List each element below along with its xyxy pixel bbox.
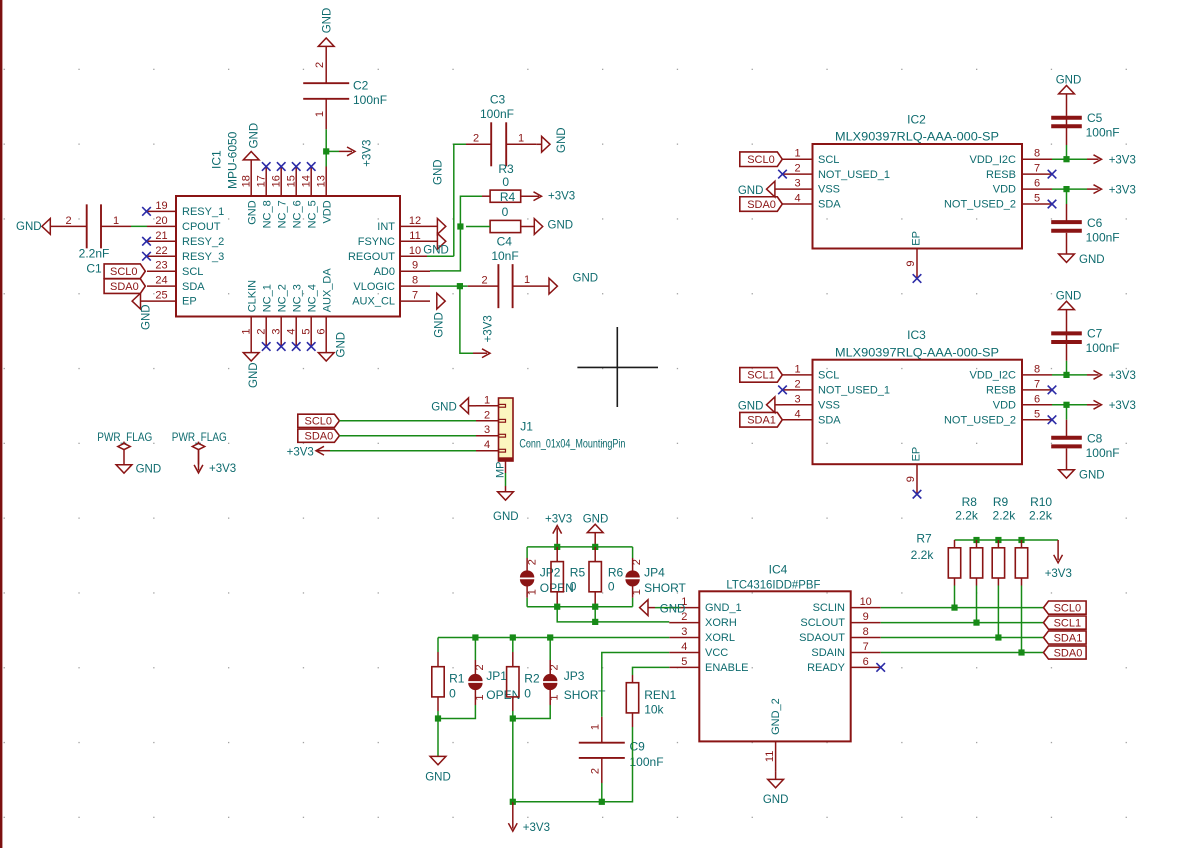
svg-text:SDA1: SDA1 (747, 415, 776, 427)
svg-text:SDA: SDA (182, 281, 205, 293)
IC1 pin 15 NC_6 (285, 167, 303, 229)
IC1 pin 12 INT (377, 215, 430, 233)
svg-text:2.2k: 2.2k (1029, 508, 1053, 522)
J1 mounting pin MP (495, 461, 507, 492)
svg-text:3: 3 (794, 393, 800, 405)
svg-text:VDD: VDD (993, 399, 1016, 411)
svg-text:SCL: SCL (818, 370, 839, 382)
junction JP1 top (472, 634, 478, 640)
svg-text:100nF: 100nF (1086, 341, 1120, 355)
IC1 pin 21 RESY_2 (147, 230, 224, 248)
resistor REN1 10k (626, 675, 676, 727)
svg-text:2: 2 (481, 274, 487, 286)
ground symbol below C6 (1059, 254, 1105, 266)
power +3V3 at IC3 VDD_I2C (1087, 370, 1136, 382)
power +3V3 below VLOGIC (473, 315, 494, 357)
IC1 value MPU-6050 (225, 131, 239, 189)
svg-text:3: 3 (270, 328, 282, 334)
ground symbol at IC1 pin 11 FSYNC (423, 233, 449, 256)
no-connect IC3 pin 7 (1048, 386, 1057, 395)
IC1 pin 16 NC_7 (270, 167, 288, 229)
svg-text:GND_1: GND_1 (705, 602, 742, 614)
svg-text:GND: GND (425, 771, 451, 783)
svg-text:+3V3: +3V3 (545, 513, 572, 525)
svg-text:Conn_01x04_MountingPin: Conn_01x04_MountingPin (519, 437, 625, 451)
svg-text:R10: R10 (1030, 495, 1052, 509)
svg-text:4: 4 (681, 641, 687, 653)
capacitor C3 100nF (466, 93, 536, 167)
IC1 pin 5 NC_4 (300, 284, 318, 346)
svg-text:15: 15 (285, 175, 297, 187)
svg-text:SCL1: SCL1 (1054, 617, 1082, 629)
svg-text:7: 7 (863, 641, 869, 653)
IC3 pin 5 NOT_USED_2 (944, 408, 1052, 426)
svg-text:GND: GND (248, 123, 260, 149)
jumper JP3 SHORT (513, 638, 606, 719)
svg-text:R2: R2 (524, 672, 540, 686)
IC4 pin 11 GND_2 (764, 698, 782, 771)
svg-text:SCL0: SCL0 (305, 416, 333, 428)
junction at R4 / +3V3 column (457, 223, 463, 229)
svg-text:SDA1: SDA1 (1054, 632, 1083, 644)
no-connect pin 15 (292, 162, 301, 171)
IC1 pin 22 RESY_3 (147, 245, 224, 263)
no-connect IC2 pin 7 (1048, 170, 1057, 179)
svg-text:+3V3: +3V3 (1109, 184, 1136, 196)
no-connect IC3 pin 2 (778, 386, 787, 395)
svg-text:GND: GND (432, 159, 444, 185)
svg-text:SCL0: SCL0 (1054, 602, 1082, 614)
ground symbol at PWR_FLAG (136, 463, 162, 475)
wire jumper-block top rail (527, 546, 633, 548)
svg-text:IC3: IC3 (907, 328, 926, 342)
svg-text:1: 1 (474, 694, 486, 700)
IC2 pin 4 SDA (783, 193, 842, 211)
svg-text:2: 2 (794, 378, 800, 390)
svg-text:R5: R5 (570, 565, 586, 579)
svg-text:19: 19 (155, 200, 167, 212)
no-connect pin 17 (262, 162, 271, 171)
svg-text:100nF: 100nF (480, 107, 514, 121)
IC1 pin 3 NC_2 (270, 284, 288, 346)
ground symbol at IC1 pin 18 (243, 123, 260, 167)
IC1 pin 19 RESY_1 (147, 200, 224, 218)
wire IC2 VDD to +3V3 (1052, 188, 1087, 190)
J1 reference J1 (520, 420, 533, 434)
svg-text:REN1: REN1 (644, 688, 676, 702)
wire IC2 VDD_I2C to +3V3 (1052, 158, 1087, 160)
no-connect pin 2 (262, 342, 271, 351)
wire +3V3 column to R3 (430, 196, 482, 271)
svg-text:SDAOUT: SDAOUT (799, 632, 845, 644)
IC4 reference IC4 (769, 563, 788, 577)
capacitor C4 10nF (468, 235, 550, 309)
hierarchical label SDA1 at IC3 pin 4 (740, 412, 783, 427)
J1 value Conn_01x04_MountingPin (519, 437, 625, 451)
IC3 pin 9 EP (905, 447, 922, 494)
wire J1 pin 4 (330, 450, 476, 452)
svg-text:IC4: IC4 (769, 563, 788, 577)
svg-text:22: 22 (155, 245, 167, 257)
svg-text:+3V3: +3V3 (1109, 370, 1136, 382)
IC3 pin 4 SDA (783, 408, 842, 426)
junction VDD/C6 (1063, 186, 1069, 192)
svg-text:REGOUT: REGOUT (348, 251, 395, 263)
wire IC4 to SCL1 (881, 622, 1044, 624)
wire IC3 VDD to +3V3 (1052, 404, 1087, 406)
svg-text:4: 4 (285, 328, 297, 334)
IC1 pin 4 NC_3 (285, 284, 303, 346)
svg-text:GND: GND (548, 220, 574, 232)
resistor R9 2.2k (992, 495, 1016, 638)
IC4 pin 6 READY (807, 656, 881, 674)
svg-text:3: 3 (484, 424, 490, 436)
svg-text:1: 1 (590, 724, 602, 730)
svg-text:2: 2 (549, 664, 561, 670)
svg-text:SDA0: SDA0 (1054, 647, 1083, 659)
svg-text:GND: GND (1079, 254, 1105, 266)
no-connect pin 14 (307, 162, 316, 171)
svg-text:SDAIN: SDAIN (811, 647, 845, 659)
svg-text:GND_2: GND_2 (770, 698, 782, 735)
svg-text:0: 0 (502, 175, 509, 189)
IC1 pin 9 AD0 (374, 260, 430, 278)
wire VLOGIC to C4 (430, 285, 468, 287)
junction VDD/C8 (1063, 402, 1069, 408)
svg-text:GND: GND (136, 463, 162, 475)
svg-text:20: 20 (155, 215, 167, 227)
ground symbol at J1 MP (493, 492, 519, 523)
svg-text:SCL0: SCL0 (747, 154, 775, 166)
IC2 pin 1 SCL (783, 148, 840, 166)
svg-text:8: 8 (412, 275, 418, 287)
IC1 pin 20 CPOUT (147, 215, 221, 233)
ground symbol at R4 (534, 219, 573, 235)
junction R8 top (973, 537, 979, 543)
hierarchical label SDA0 at IC1 pin 24 (104, 279, 145, 294)
svg-text:8: 8 (863, 626, 869, 638)
svg-text:SCLOUT: SCLOUT (800, 617, 845, 629)
svg-text:SCL: SCL (818, 154, 839, 166)
svg-text:12: 12 (409, 215, 421, 227)
svg-text:PWR_FLAG: PWR_FLAG (172, 430, 227, 444)
svg-text:GND: GND (322, 8, 334, 34)
svg-text:100nF: 100nF (353, 93, 387, 107)
svg-text:GND: GND (1079, 470, 1105, 482)
svg-text:GND: GND (1056, 75, 1082, 87)
svg-text:NC_7: NC_7 (276, 200, 288, 228)
svg-text:GND: GND (738, 185, 764, 197)
svg-text:1: 1 (240, 328, 252, 334)
svg-text:XORH: XORH (705, 617, 737, 629)
svg-text:2: 2 (794, 163, 800, 175)
svg-text:SCLIN: SCLIN (813, 602, 845, 614)
svg-text:RESB: RESB (986, 384, 1016, 396)
ground symbol above C5 (1056, 75, 1082, 94)
wire IC4 to SDA1 (881, 637, 1044, 639)
svg-text:NC_6: NC_6 (291, 200, 303, 228)
no-connect IC2 pin 2 (778, 170, 787, 179)
svg-text:+3V3: +3V3 (1109, 400, 1136, 412)
svg-text:1: 1 (794, 363, 800, 375)
junction R2 top (510, 634, 516, 640)
resistor R8 2.2k (955, 495, 982, 623)
svg-text:5: 5 (1034, 408, 1040, 420)
svg-text:2.2k: 2.2k (955, 508, 979, 522)
IC4 pin 10 SCLIN (813, 596, 881, 614)
svg-text:1: 1 (484, 394, 490, 406)
svg-text:IC1: IC1 (209, 150, 223, 169)
svg-text:R9: R9 (993, 495, 1009, 509)
IC2 reference (907, 113, 926, 127)
svg-text:SDA: SDA (818, 414, 841, 426)
svg-text:8: 8 (1034, 363, 1040, 375)
IC1 pin 24 SDA (147, 275, 205, 293)
svg-text:3: 3 (794, 178, 800, 190)
svg-text:C2: C2 (353, 79, 369, 93)
IC3 pin 8 VDD_I2C (970, 363, 1052, 381)
ground symbol below C8 (1059, 470, 1105, 482)
svg-text:AUX_DA: AUX_DA (321, 268, 333, 313)
svg-text:NOT_USED_1: NOT_USED_1 (818, 384, 890, 396)
svg-text:2.2k: 2.2k (911, 548, 935, 562)
svg-text:C3: C3 (490, 93, 506, 107)
svg-text:5: 5 (681, 656, 687, 668)
svg-text:GND: GND (583, 513, 609, 525)
IC1 pin 2 NC_1 (255, 284, 273, 346)
power flag PWR_FLAG (GND) (97, 430, 152, 473)
svg-text:GND: GND (423, 244, 449, 256)
svg-text:NC_1: NC_1 (261, 284, 273, 312)
IC1 pin 14 NC_5 (300, 167, 318, 229)
ground symbol at C4 pin 1 (549, 273, 598, 295)
svg-text:VCC: VCC (705, 647, 728, 659)
wire R2 to +3V3 rail (512, 719, 514, 802)
svg-text:RESY_2: RESY_2 (182, 236, 224, 248)
svg-text:JP3: JP3 (564, 669, 585, 683)
svg-text:2: 2 (590, 768, 602, 774)
svg-text:+3V3: +3V3 (209, 463, 236, 475)
IC2 MLX90397RLQ-AAA-000-SP body (813, 144, 1023, 249)
capacitor C9 100nF (579, 717, 664, 783)
svg-text:2.2nF: 2.2nF (79, 246, 110, 260)
svg-text:0: 0 (449, 687, 456, 701)
ground symbol at IC1 pin 25 EP (132, 293, 152, 330)
IC1 pin 7 AUX_CL (352, 290, 430, 308)
svg-text:SDA: SDA (818, 199, 841, 211)
wire REGOUT to C3 (427, 144, 466, 256)
connector J1 Conn_01x04_MountingPin body (499, 398, 514, 461)
svg-text:100nF: 100nF (630, 755, 664, 769)
svg-text:C8: C8 (1087, 432, 1103, 446)
IC3 pin 3 VSS (783, 393, 841, 411)
hierarchical label SCL1 at IC3 pin 1 (740, 368, 783, 383)
ground symbol at IC1 pin 6 AUX_DA (318, 332, 347, 361)
svg-text:9: 9 (412, 260, 418, 272)
svg-text:EP: EP (910, 447, 922, 462)
svg-text:VDD: VDD (993, 184, 1016, 196)
svg-text:1: 1 (314, 111, 326, 117)
svg-text:XORL: XORL (705, 632, 735, 644)
no-connect pin 22 (142, 252, 151, 261)
IC1 pin 17 NC_8 (255, 167, 273, 229)
svg-text:2: 2 (473, 133, 479, 145)
svg-text:+3V3: +3V3 (548, 191, 575, 203)
junction SDA0 pull-up (1018, 649, 1024, 655)
hierarchical label SDA0 at J1 pin 3 (298, 429, 340, 442)
capacitor C8 100nF (1051, 405, 1119, 470)
svg-text:10nF: 10nF (491, 249, 518, 263)
svg-text:JP4: JP4 (644, 566, 665, 580)
IC1 pin 1 CLKIN (240, 280, 258, 347)
no-connect IC3 EP (913, 490, 922, 499)
svg-text:10k: 10k (644, 703, 664, 717)
junction SCL1 pull-up (973, 620, 979, 626)
svg-text:+3V3: +3V3 (523, 822, 550, 834)
junction at VLOGIC (457, 283, 463, 289)
hierarchical label SDA1 (1044, 631, 1087, 644)
IC4 pin 5 ENABLE (669, 656, 748, 674)
IC2 value MLX90397RLQ-AAA-000-SP (835, 130, 999, 144)
IC1 pin 11 FSYNC (358, 230, 430, 248)
svg-text:8: 8 (1034, 148, 1040, 160)
svg-text:4: 4 (794, 408, 800, 420)
no-connect IC2 EP (913, 274, 922, 283)
svg-text:1: 1 (524, 274, 530, 286)
svg-text:9: 9 (905, 476, 917, 482)
svg-text:SDA0: SDA0 (110, 281, 139, 293)
hierarchical label SCL0 (1044, 601, 1087, 614)
svg-text:GND: GND (434, 312, 446, 338)
wire IC4 to SDA0 (881, 652, 1044, 654)
ground symbol above C7 (1056, 290, 1082, 309)
ground symbol at IC4 pin 11 (763, 771, 789, 806)
power +3V3 at PWR_FLAG (209, 463, 236, 475)
svg-text:C1: C1 (86, 262, 102, 276)
svg-text:MPU-6050: MPU-6050 (225, 131, 239, 189)
jumper JP1 OPEN (438, 638, 520, 719)
junction R10 top (1018, 537, 1024, 543)
resistor R4 0 (466, 205, 535, 233)
IC1 MPU-6050 body (176, 196, 400, 317)
IC2 pin 5 NOT_USED_2 (944, 193, 1052, 211)
svg-text:OPEN: OPEN (486, 688, 520, 702)
svg-text:J1: J1 (520, 420, 533, 434)
svg-text:6: 6 (315, 328, 327, 334)
svg-text:0: 0 (570, 579, 577, 593)
junction +3V3 rail at C9 (599, 799, 605, 805)
svg-text:3: 3 (681, 626, 687, 638)
svg-text:NC_2: NC_2 (276, 284, 288, 312)
svg-text:1: 1 (631, 589, 643, 595)
svg-text:NC_4: NC_4 (306, 284, 318, 312)
svg-text:VDD: VDD (321, 200, 333, 223)
svg-text:ENABLE: ENABLE (705, 662, 748, 674)
svg-text:VDD_I2C: VDD_I2C (970, 370, 1017, 382)
wire C9 to +3V3 rail (601, 783, 603, 802)
svg-text:NC_8: NC_8 (261, 200, 273, 228)
wire VCC to C9 (602, 653, 670, 717)
J1 pin 2 (476, 409, 499, 421)
IC3 value MLX90397RLQ-AAA-000-SP (835, 345, 999, 359)
junction R6 top (592, 544, 598, 550)
svg-text:7: 7 (1034, 378, 1040, 390)
svg-text:FSYNC: FSYNC (358, 236, 395, 248)
svg-text:100nF: 100nF (1086, 446, 1120, 460)
power +3V3 at pull-up rail (1045, 540, 1072, 580)
wire ENABLE to REN1 (633, 667, 670, 675)
junction R6 bottom (592, 604, 598, 610)
wire IC3 VDD_I2C to +3V3 (1052, 374, 1087, 376)
svg-text:AD0: AD0 (374, 266, 395, 278)
svg-text:VDD_I2C: VDD_I2C (970, 154, 1017, 166)
svg-text:6: 6 (1034, 393, 1040, 405)
no-connect pin 4 (292, 342, 301, 351)
J1 pin 1 (476, 394, 499, 406)
svg-text:GND: GND (573, 273, 599, 285)
no-connect IC2 pin 5 (1048, 200, 1057, 209)
IC4 pin 4 VCC (669, 641, 728, 659)
IC1 pin 25 EP (147, 290, 197, 308)
IC4 value LTC4316IDD#PBF (726, 578, 820, 592)
capacitor C7 100nF (1051, 310, 1119, 375)
power +3V3 below R2 (508, 802, 550, 834)
no-connect pin 3 (277, 342, 286, 351)
svg-text:5: 5 (300, 328, 312, 334)
ground symbol at IC2 pin 3 VSS (738, 181, 783, 197)
no-connect IC4 pin 6 READY (876, 663, 885, 672)
svg-text:6: 6 (863, 656, 869, 668)
power +3V3 at IC3 VDD (1087, 400, 1136, 412)
IC3 MLX90397RLQ-AAA-000-SP body (813, 360, 1023, 465)
svg-text:9: 9 (905, 260, 917, 266)
IC4 pin 8 SDAOUT (799, 626, 881, 644)
wire jumper rail to XORH (557, 607, 669, 622)
svg-text:+3V3: +3V3 (1045, 568, 1072, 580)
no-connect IC3 pin 5 (1048, 415, 1057, 424)
capacitor C6 100nF (1051, 189, 1119, 254)
junction +3V3 rail at R2 (510, 799, 516, 805)
svg-text:IC2: IC2 (907, 113, 926, 127)
ground symbol at IC3 pin 3 VSS (738, 397, 783, 413)
svg-text:2: 2 (65, 215, 71, 227)
svg-text:R1: R1 (449, 672, 465, 686)
wire XORL rail (438, 637, 669, 639)
svg-text:2.2k: 2.2k (993, 508, 1017, 522)
IC4 LTC4316IDD#PBF body (699, 591, 850, 741)
jumper JP2 OPEN (520, 547, 574, 607)
svg-text:10: 10 (860, 596, 872, 608)
wire IC4 to SCL0 (881, 607, 1044, 609)
svg-text:RESY_3: RESY_3 (182, 251, 224, 263)
svg-text:READY: READY (807, 662, 846, 674)
IC3 reference (907, 328, 926, 342)
hierarchical label SCL0 at IC1 pin 23 (104, 264, 145, 279)
svg-text:GND: GND (140, 304, 152, 330)
svg-text:1: 1 (113, 215, 119, 227)
svg-text:GND: GND (660, 604, 686, 616)
junction R5 top (554, 544, 560, 550)
power +3V3 at R3 (534, 191, 576, 203)
svg-text:16: 16 (270, 175, 282, 187)
svg-text:2: 2 (255, 328, 267, 334)
wire C2 to VDD rail (325, 129, 327, 166)
svg-text:2: 2 (631, 559, 643, 565)
svg-text:17: 17 (255, 175, 267, 187)
crosshair marker (577, 327, 658, 407)
J1 pin 4 (476, 439, 499, 451)
junction SCL0 pull-up (951, 605, 957, 611)
